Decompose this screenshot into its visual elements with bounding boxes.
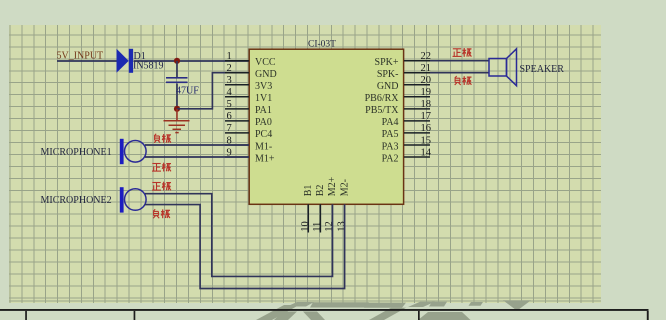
svg-text:PA3: PA3: [382, 141, 399, 152]
svg-text:13: 13: [336, 221, 347, 232]
svg-text:GND: GND: [377, 81, 399, 92]
svg-text:PC4: PC4: [255, 129, 272, 140]
svg-text:19: 19: [421, 87, 432, 98]
svg-text:5V_INPUT: 5V_INPUT: [57, 51, 104, 62]
svg-text:1V1: 1V1: [255, 93, 272, 104]
label fu-ji speaker bottom: [455, 76, 472, 85]
svg-text:17: 17: [421, 111, 432, 122]
svg-text:14: 14: [421, 147, 432, 158]
capacitor C1 47UF: [166, 61, 199, 109]
svg-text:B1: B1: [303, 185, 314, 197]
svg-text:M1-: M1-: [255, 141, 272, 152]
microphone MICROPHONE1 symbol: [120, 139, 146, 164]
svg-text:16: 16: [421, 123, 432, 134]
left pin stubs 1-9: [225, 61, 249, 157]
svg-text:3V3: 3V3: [255, 81, 272, 92]
label fu-ji mic2 bottom: [153, 209, 170, 218]
svg-text:SPK-: SPK-: [377, 69, 399, 80]
speaker SPEAKER symbol: [489, 49, 517, 86]
net label 5V_INPUT: [57, 51, 104, 62]
svg-text:20: 20: [421, 75, 432, 86]
wire pin 22 to speaker plus: [430, 60, 489, 62]
diode D1 IN5819: [117, 49, 164, 73]
junction node at cap bottom: [174, 106, 180, 112]
title block divider 3: [418, 311, 420, 320]
right pin names: [365, 57, 400, 164]
left pin numbers 1-9: [227, 51, 233, 158]
svg-text:1: 1: [227, 51, 232, 62]
bottom pin names B1 B2 M2+ M2- (rotated): [303, 176, 350, 196]
svg-text:6: 6: [227, 111, 232, 122]
svg-text:4: 4: [227, 87, 233, 98]
title block top border line: [0, 309, 649, 311]
svg-text:10: 10: [300, 221, 311, 232]
right pin stubs 22-14: [404, 61, 430, 157]
svg-text:7: 7: [227, 123, 232, 134]
label zheng-ji mic2 top: [152, 182, 171, 191]
svg-text:PA5: PA5: [382, 129, 399, 140]
svg-text:PB6/RX: PB6/RX: [365, 93, 400, 104]
svg-text:IN5819: IN5819: [133, 61, 164, 72]
svg-text:CI-03T: CI-03T: [308, 40, 336, 50]
svg-text:3: 3: [227, 75, 232, 86]
svg-text:5: 5: [227, 99, 232, 110]
svg-text:SPEAKER: SPEAKER: [520, 64, 565, 75]
wire mic2 minus to chip pin 13 M2-: [145, 204, 345, 288]
svg-text:PA4: PA4: [382, 117, 399, 128]
wire diode cathode to chip pin 1: [134, 60, 249, 62]
left pin names: [255, 57, 277, 164]
label fu-ji mic1 top: [154, 134, 171, 143]
label zheng-ji speaker top: [453, 48, 472, 57]
ground: [164, 109, 190, 133]
bottom pin numbers 10-13 (rotated): [300, 221, 347, 232]
svg-text:22: 22: [421, 51, 432, 62]
wire 5V input to diode anode: [57, 60, 118, 62]
svg-text:2: 2: [227, 63, 232, 74]
wire mic1 to pin 8: [145, 144, 249, 146]
right pin numbers 22-14: [421, 51, 432, 158]
svg-text:11: 11: [312, 222, 323, 232]
wire pin 21 to speaker minus: [430, 72, 489, 74]
svg-text:M2-: M2-: [339, 179, 350, 196]
svg-text:15: 15: [421, 135, 432, 146]
watermark logo fragments: [256, 300, 531, 320]
title block right border: [647, 311, 649, 320]
title block divider 1: [25, 311, 27, 320]
svg-text:B2: B2: [315, 185, 326, 197]
svg-text:PA2: PA2: [382, 153, 399, 164]
svg-text:18: 18: [421, 99, 432, 110]
svg-text:VCC: VCC: [255, 57, 276, 68]
label zheng-ji mic1 bottom: [152, 163, 171, 172]
svg-text:M2+: M2+: [327, 176, 338, 196]
svg-text:SPK+: SPK+: [375, 57, 399, 68]
svg-text:M1+: M1+: [255, 153, 275, 164]
junction node on pin1 wire: [174, 58, 180, 64]
svg-text:21: 21: [421, 63, 432, 74]
IC U1 CI-03T body: [249, 49, 403, 204]
svg-text:MICROPHONE1: MICROPHONE1: [41, 147, 112, 158]
svg-text:PA1: PA1: [255, 105, 272, 116]
wire mic1 to pin 9: [145, 156, 249, 158]
svg-text:GND: GND: [255, 69, 277, 80]
microphone MICROPHONE2 symbol: [120, 187, 146, 212]
svg-text:47UF: 47UF: [176, 85, 199, 96]
wire mic2 plus to chip pin 12 M2+: [145, 194, 333, 277]
title block divider 2: [134, 311, 136, 320]
svg-text:PB5/TX: PB5/TX: [365, 105, 399, 116]
bottom pin stubs 10,11: [308, 204, 320, 232]
wire cap bottom to chip pin 2 (GND): [177, 73, 249, 109]
svg-text:MICROPHONE2: MICROPHONE2: [41, 195, 112, 206]
svg-text:PA0: PA0: [255, 117, 272, 128]
svg-text:12: 12: [324, 221, 335, 232]
